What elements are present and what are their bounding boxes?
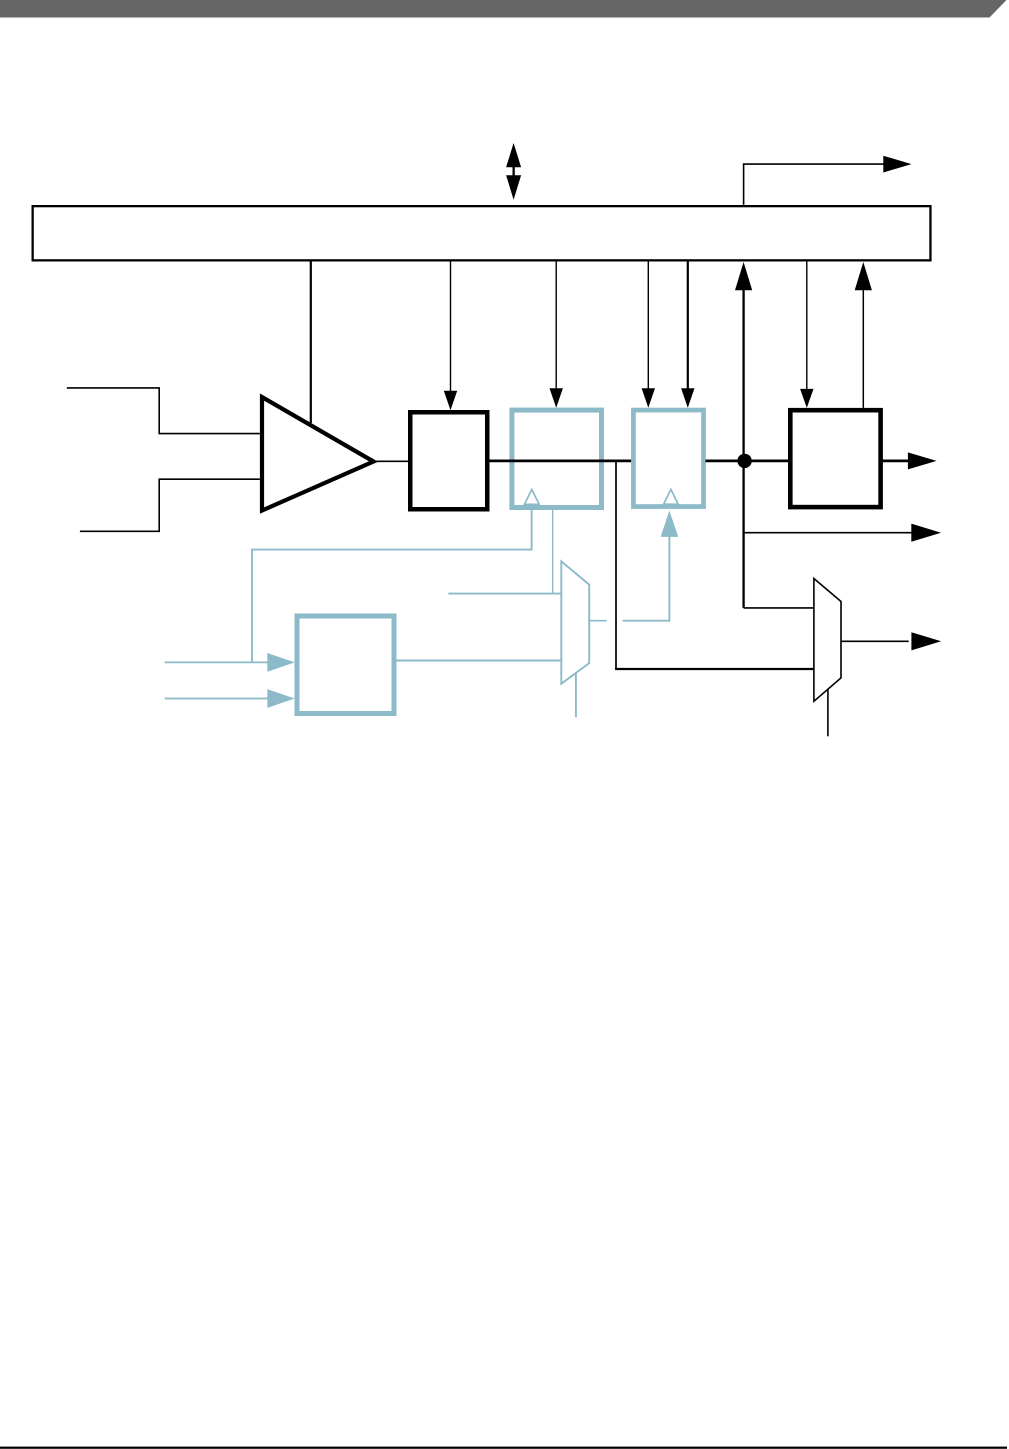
arrowhead into latch 2 left <box>642 388 655 408</box>
blue arrowhead 1 <box>267 653 294 672</box>
wire node to bus (read-back) <box>742 289 744 608</box>
block 2 <box>790 410 880 507</box>
arrowhead output 2 <box>911 524 941 542</box>
latch 2 clock triangle <box>664 489 679 504</box>
arrowhead up into bus right <box>855 262 872 290</box>
wire latch 2 to node <box>706 460 790 463</box>
latch 1 clock triangle <box>525 489 540 504</box>
wire bus down 1 <box>450 261 452 391</box>
input wire B <box>80 479 260 531</box>
bidirectional data arrow above bus <box>506 143 521 200</box>
block 1 <box>410 412 487 509</box>
edge detect block (blue) <box>297 616 394 714</box>
wire block 2 up to bus <box>862 289 864 408</box>
internal bus box <box>33 206 931 260</box>
wire bus down 2 <box>555 261 557 389</box>
wire edge block to blue mux <box>396 660 561 662</box>
blue mux output segment 2 <box>623 536 670 621</box>
latch 1 (blue) <box>512 410 602 507</box>
wire bus to top-right output <box>744 164 885 205</box>
arrowhead up into bus <box>735 262 752 290</box>
wire block 1 to latch 2 <box>486 460 632 463</box>
arrowhead into latch 2 right <box>681 388 694 408</box>
wire output 2 <box>744 532 912 534</box>
output mux (black) <box>814 579 841 702</box>
input wire A <box>67 388 260 434</box>
arrowhead into block 2 <box>800 389 813 408</box>
arrowhead into block 1 <box>444 391 457 411</box>
header band <box>0 0 1007 18</box>
mux select line <box>827 689 829 736</box>
blue arrowhead 2 <box>267 689 294 708</box>
blue input wire 2 <box>165 698 268 700</box>
wire bus to comparator <box>310 261 312 423</box>
arrowhead into latch 1 <box>550 388 563 408</box>
wire latch1 clock left <box>252 506 532 662</box>
latch 2 (blue) <box>633 410 703 507</box>
wire bus down 4 <box>687 261 689 389</box>
comparator U1 <box>262 397 374 511</box>
node junction dot <box>737 454 751 468</box>
blue mux output segment 1 <box>589 620 607 622</box>
wire signal branch down <box>615 461 617 670</box>
wire branch to mux input 2 <box>615 668 814 670</box>
wire bus down 3 <box>647 261 649 389</box>
blue input wire 1 <box>165 661 268 663</box>
blue arrowhead up into latch 2 clock <box>661 511 679 537</box>
wire mux output <box>841 640 909 642</box>
wire node to mux input 1 <box>744 607 814 609</box>
wire block 2 output <box>883 460 909 463</box>
clock mux (blue) <box>561 561 589 683</box>
blue mux select line <box>575 673 577 717</box>
arrowhead top-right output <box>883 156 911 173</box>
wire select input to blue mux <box>449 593 562 595</box>
wire latch1 bottom to select line <box>552 510 554 594</box>
arrowhead output 3 <box>911 632 941 650</box>
wire bus down 5 <box>806 261 808 389</box>
wire comparator to block 1 <box>374 460 410 462</box>
arrowhead output 1 <box>908 452 937 469</box>
footer rule <box>0 1447 1007 1449</box>
